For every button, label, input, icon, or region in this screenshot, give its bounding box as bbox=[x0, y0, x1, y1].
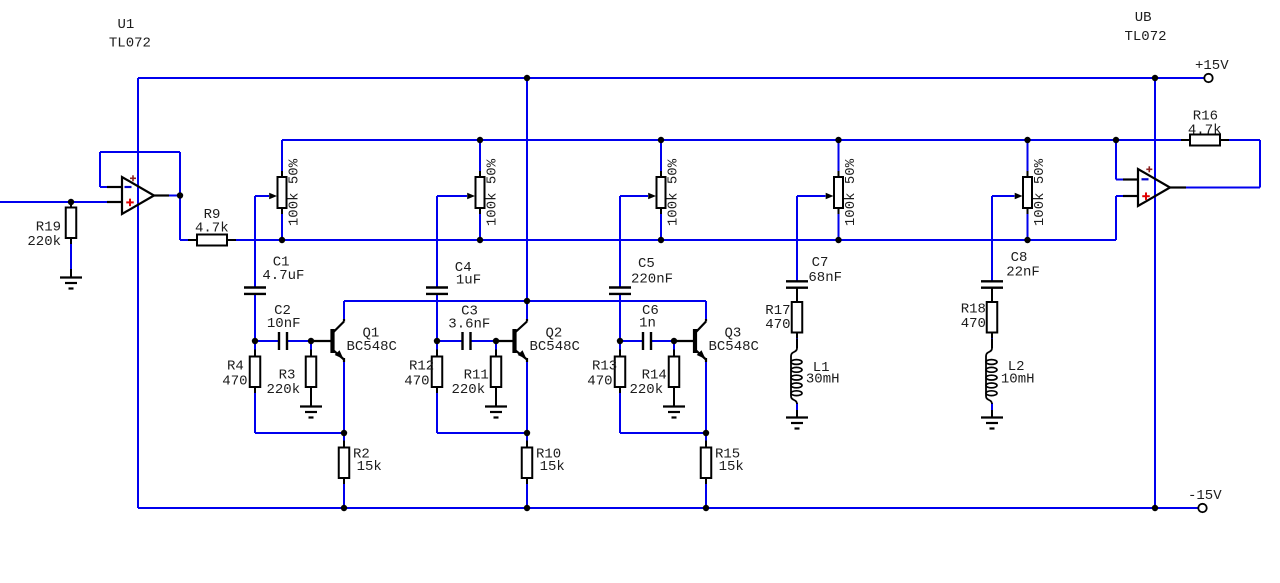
svg-text:1n: 1n bbox=[639, 316, 656, 332]
svg-text:4.7k: 4.7k bbox=[1188, 122, 1222, 138]
svg-text:100k 50%: 100k 50% bbox=[843, 158, 859, 226]
svg-text:R12: R12 bbox=[409, 359, 434, 375]
svg-text:C5: C5 bbox=[638, 256, 655, 272]
svg-text:BC548C: BC548C bbox=[530, 339, 580, 355]
svg-text:100k 50%: 100k 50% bbox=[485, 158, 501, 226]
svg-text:3.6nF: 3.6nF bbox=[448, 317, 490, 333]
svg-text:10nF: 10nF bbox=[267, 316, 301, 332]
svg-text:BC548C: BC548C bbox=[709, 339, 759, 355]
svg-text:15k: 15k bbox=[357, 459, 382, 475]
svg-text:UB: UB bbox=[1135, 10, 1152, 26]
svg-text:BC548C: BC548C bbox=[347, 339, 397, 355]
svg-text:470: 470 bbox=[587, 374, 612, 390]
svg-text:220k: 220k bbox=[267, 382, 301, 398]
svg-text:10mH: 10mH bbox=[1001, 372, 1035, 388]
svg-text:220k: 220k bbox=[27, 234, 61, 250]
svg-text:C7: C7 bbox=[812, 255, 829, 271]
svg-text:220k: 220k bbox=[452, 382, 486, 398]
svg-text:100k 50%: 100k 50% bbox=[287, 158, 303, 226]
svg-text:+15V: +15V bbox=[1195, 58, 1229, 74]
svg-text:220nF: 220nF bbox=[631, 272, 673, 288]
svg-text:4.7uF: 4.7uF bbox=[262, 268, 304, 284]
svg-text:470: 470 bbox=[404, 374, 429, 390]
svg-text:TL072: TL072 bbox=[1125, 29, 1167, 45]
svg-text:U1: U1 bbox=[118, 17, 135, 33]
svg-text:68nF: 68nF bbox=[808, 270, 842, 286]
svg-text:470: 470 bbox=[765, 317, 790, 333]
svg-text:220k: 220k bbox=[630, 382, 664, 398]
svg-text:100k 50%: 100k 50% bbox=[666, 158, 682, 226]
svg-text:100k 50%: 100k 50% bbox=[1032, 158, 1048, 226]
svg-text:15k: 15k bbox=[719, 459, 744, 475]
svg-text:470: 470 bbox=[222, 374, 247, 390]
svg-text:4.7k: 4.7k bbox=[195, 220, 229, 236]
svg-text:R13: R13 bbox=[592, 359, 617, 375]
svg-text:15k: 15k bbox=[540, 459, 565, 475]
svg-text:R4: R4 bbox=[227, 359, 244, 375]
svg-text:TL072: TL072 bbox=[109, 36, 151, 52]
svg-text:1uF: 1uF bbox=[456, 273, 481, 289]
svg-text:-15V: -15V bbox=[1188, 488, 1222, 504]
svg-text:22nF: 22nF bbox=[1006, 265, 1040, 281]
svg-text:30mH: 30mH bbox=[806, 372, 840, 388]
svg-text:470: 470 bbox=[961, 316, 986, 332]
